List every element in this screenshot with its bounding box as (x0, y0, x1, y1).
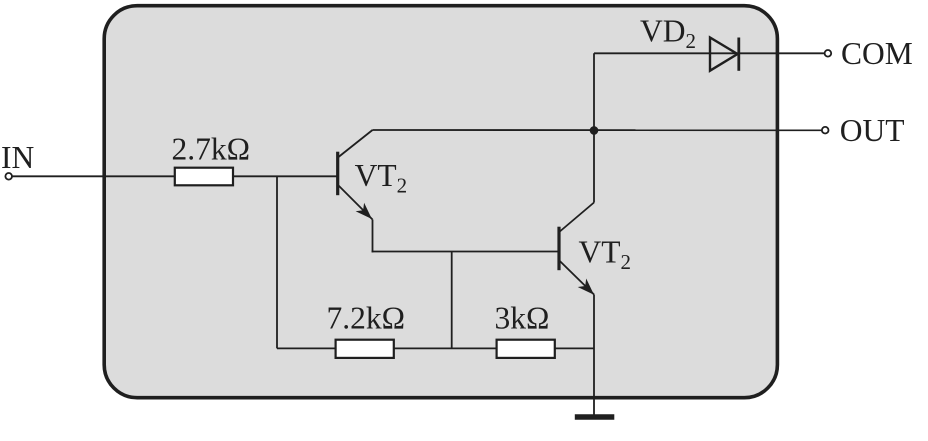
transistor VT2 first : emitter diagonal (339, 186, 373, 220)
terminal IN (5, 173, 12, 180)
diode VD2 cathode bar (737, 38, 740, 71)
transistor VT2 second : emitter arrow (578, 279, 594, 295)
wire emitter row horizontal (372, 251, 559, 253)
node junction dot (590, 126, 599, 135)
transistor VT2 first : emitter arrow (356, 203, 372, 219)
wire resistor row horizontal (277, 347, 594, 349)
transistor VT2 second : collector diagonal (560, 203, 594, 232)
svg-text:IN: IN (1, 140, 34, 175)
svg-text:2.7kΩ: 2.7kΩ (172, 131, 251, 166)
IC package outline (104, 6, 777, 398)
transistor VT2 first : base bar (336, 152, 339, 196)
transistor VT2 first : collector diagonal (339, 130, 373, 157)
wire middle branch vertical (451, 252, 453, 349)
svg-text:3kΩ: 3kΩ (495, 301, 550, 336)
wire COM horizontal (594, 52, 825, 54)
diode VD2 triangle (710, 38, 738, 71)
wire IN horizontal (12, 175, 337, 177)
terminal COM (825, 50, 832, 57)
transistor VT2 second : base bar (557, 227, 560, 271)
svg-text:COM: COM (841, 36, 913, 71)
wire collector2 vertical to top (593, 53, 595, 202)
svg-text:OUT: OUT (840, 113, 905, 148)
svg-text:7.2kΩ: 7.2kΩ (327, 301, 406, 336)
wire emitter2 vertical to ground (593, 295, 595, 417)
resistor R3 3kΩ (497, 340, 555, 358)
terminal OUT (822, 127, 829, 134)
wire emitter1 vertical (372, 220, 374, 253)
transistor VT2 second : emitter diagonal (560, 261, 594, 295)
wire left branch vertical (276, 176, 278, 348)
wire collector/OUT horizontal (373, 129, 822, 131)
ground (575, 414, 615, 419)
resistor R1 2.7kΩ (175, 168, 233, 186)
resistor R2 7.2kΩ (336, 340, 394, 358)
